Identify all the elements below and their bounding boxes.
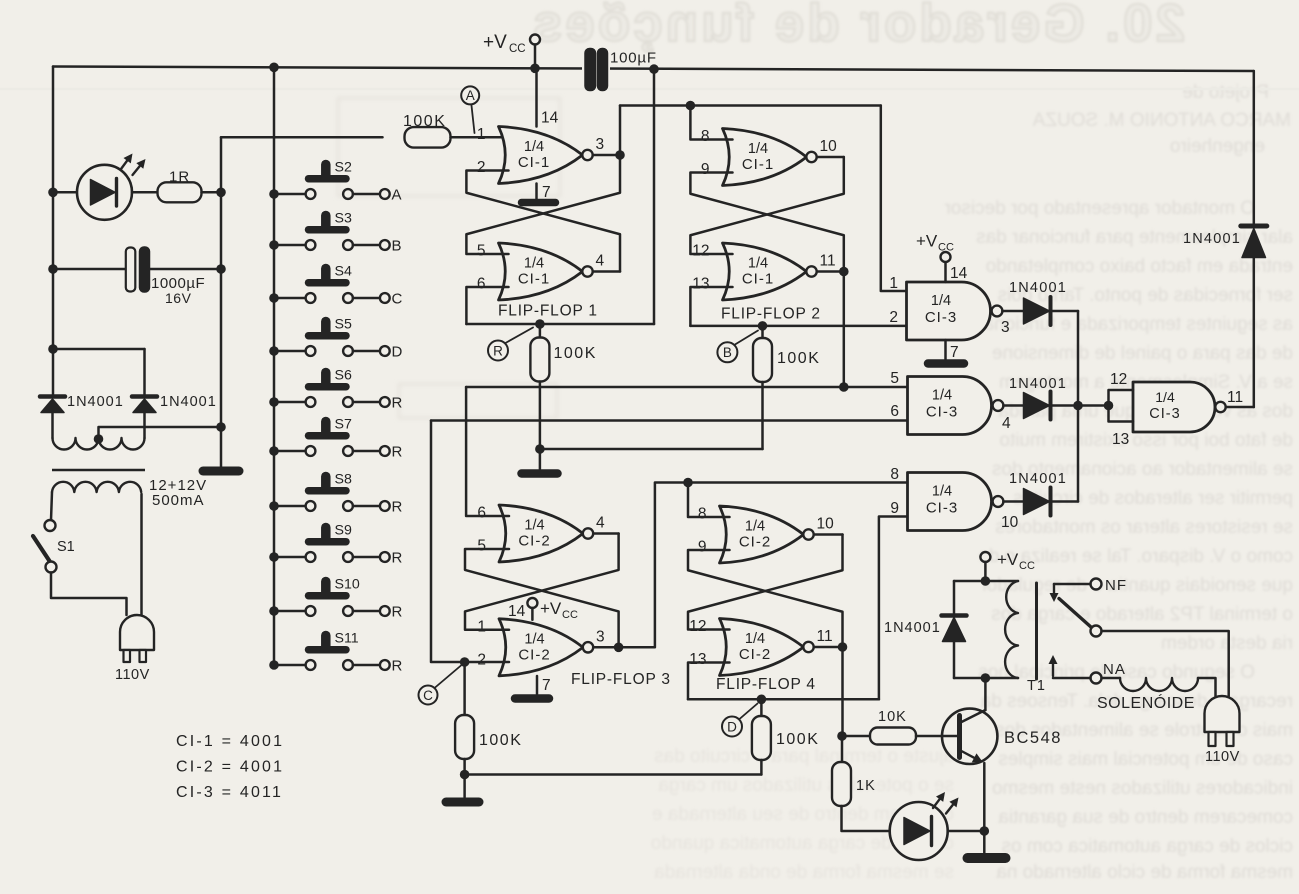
svg-text:100µF: 100µF (610, 50, 657, 67)
svg-text:engenheiro: engenheiro (1170, 136, 1265, 157)
NOR gate lower of FLIP-FLOP 4 (CI-2) (720, 619, 804, 676)
wire FF4 pin 13 to D net bottom wire (688, 663, 730, 700)
svg-text:CI-1: CI-1 (742, 271, 774, 288)
node R marker (506, 328, 534, 344)
svg-text:12: 12 (689, 618, 706, 635)
node C marker (435, 666, 462, 689)
svg-text:11: 11 (1227, 389, 1243, 406)
svg-text:S3: S3 (335, 211, 352, 227)
svg-text:CI-3: CI-3 (1149, 406, 1180, 422)
svg-text:S1: S1 (57, 539, 75, 555)
svg-text:4: 4 (596, 253, 605, 270)
capacitor C1 100uF (582, 55, 610, 83)
svg-text:500mA: 500mA (152, 492, 205, 509)
svg-text:C: C (423, 688, 433, 703)
svg-text:CC: CC (1019, 560, 1035, 572)
svg-text:1/4: 1/4 (745, 631, 765, 647)
svg-text:FLIP-FLOP 2: FLIP-FLOP 2 (721, 306, 821, 323)
svg-text:5: 5 (890, 370, 899, 387)
svg-text:9: 9 (701, 161, 710, 178)
svg-text:11: 11 (817, 628, 833, 645)
svg-text:CI-2: CI-2 (518, 533, 550, 550)
wire FF3 output 4 from bubble (593, 532, 618, 535)
svg-text:4: 4 (596, 515, 605, 532)
svg-text:10K: 10K (878, 709, 907, 725)
svg-text:MARCO ANTONIO M. SOUZA: MARCO ANTONIO M. SOUZA (1032, 110, 1291, 131)
svg-text:+V: +V (916, 232, 938, 251)
svg-text:CI-1 = 4001: CI-1 = 4001 (176, 733, 284, 750)
wire cross-coupling FLIP-FLOP 1 lower-output to upper-input (466, 171, 620, 272)
svg-text:7: 7 (950, 344, 959, 361)
svg-text:S5: S5 (335, 317, 352, 333)
wire R7 to base (916, 735, 957, 738)
wire FF1 pin 7 to ground (535, 184, 538, 199)
svg-text:13: 13 (689, 651, 706, 668)
relay lever (1059, 599, 1092, 628)
svg-text:+V: +V (483, 32, 507, 53)
junction R3 ground link (535, 444, 545, 454)
svg-text:mesma forma de ciclo alternado: mesma forma de ciclo alternado na (996, 862, 1293, 883)
junction 0V rail cap row (216, 264, 226, 274)
wire +Vcc / reset top rail (53, 67, 1254, 72)
switch S9 output R (269, 552, 279, 562)
junction C node (460, 657, 470, 667)
svg-text:1/4: 1/4 (745, 519, 765, 535)
contact NA terminal (1091, 673, 1102, 684)
pushbutton symbol S3 (309, 226, 347, 234)
relay K1 core (1035, 583, 1038, 679)
switch S1 (45, 520, 56, 531)
wire FF2 output 10 to cross (817, 156, 844, 159)
NOR gate lower of FLIP-FLOP 2 (CI-1) (723, 243, 807, 300)
svg-text:C: C (392, 291, 403, 308)
svg-text:R: R (392, 444, 403, 461)
wire FF2 pin 8 stub (690, 106, 732, 140)
svg-text:CC: CC (562, 609, 578, 621)
wire FF1 output 4 from bubble (593, 270, 620, 273)
transformer T0 core (52, 469, 145, 471)
wire emitter down (983, 763, 986, 831)
svg-text:CC: CC (938, 242, 954, 254)
NOR gate upper of FLIP-FLOP 4 (CI-2) (720, 506, 804, 563)
diode D1 1N4001 rectifier left (40, 394, 65, 399)
wire CI-3A output to diode D3 (1002, 310, 1023, 313)
svg-text:SOLENÓIDE: SOLENÓIDE (1097, 693, 1195, 712)
wire left rail to C2 (53, 268, 126, 271)
svg-text:10: 10 (1001, 514, 1019, 531)
svg-text:13: 13 (692, 276, 709, 293)
ground R5/R6 (446, 798, 479, 807)
junction top rail / switch rail (269, 63, 279, 73)
wire FF4 output 11 down to base node (841, 647, 844, 736)
junction left rail rectifier row (48, 344, 58, 354)
node D marker (740, 704, 758, 720)
wire CI-3D pin 12 input (1109, 390, 1134, 406)
junction left rail LED row (48, 188, 58, 198)
pushbutton symbol S6 (309, 383, 347, 391)
svg-text:se resistores alterar os monta: se resistores alterar os montadores (995, 517, 1293, 538)
solenoid L1 (1102, 677, 1121, 680)
wire R net bottom of FF1 (466, 323, 654, 326)
svg-text:8: 8 (701, 128, 710, 145)
svg-text:12: 12 (692, 243, 709, 260)
svg-text:1N4001: 1N4001 (1183, 231, 1241, 247)
pushbutton symbol S4 (309, 279, 347, 287)
junction top rail / reset vertical (649, 64, 659, 74)
svg-text:que senoidais quantia e de reg: que senoidais quantia e de regulador (980, 575, 1293, 596)
wire collector to relay (984, 678, 987, 710)
svg-text:5: 5 (477, 538, 486, 555)
wire rail down to CI-3A pin 1 (881, 106, 907, 292)
wire ground link R5-R6 (465, 773, 762, 776)
svg-text:R: R (392, 550, 403, 567)
junction base node (837, 731, 847, 741)
svg-text:16V: 16V (165, 290, 192, 306)
svg-text:1K: 1K (856, 778, 876, 794)
ground R3/R4 (522, 469, 558, 478)
wire common contact to plug P2 (1102, 631, 1229, 696)
wire net C rail to CI-3B pin 6 (431, 419, 908, 422)
wire CI-3D pin 13 input (1109, 406, 1134, 422)
svg-text:S7: S7 (335, 417, 352, 433)
svg-text:3: 3 (1001, 319, 1010, 336)
svg-text:ciclos de carga automatica com: ciclos de carga automatica com os (1002, 836, 1293, 857)
svg-text:CI-1: CI-1 (518, 154, 550, 171)
svg-text:1: 1 (477, 618, 486, 635)
wire FF3 output 3 up to rail (619, 483, 908, 648)
svg-text:ria desta ordem: ria desta ordem (1161, 633, 1293, 654)
capacitor C2 1000uF 16V (126, 248, 136, 292)
wire R3 to ground link (539, 382, 542, 450)
svg-text:9: 9 (890, 500, 899, 517)
svg-text:FLIP-FLOP 4: FLIP-FLOP 4 (716, 676, 816, 693)
wire switch column rail (273, 67, 276, 665)
svg-text:comecarem dentro de sua garant: comecarem dentro de sua garantia (998, 807, 1293, 828)
svg-text:1/4: 1/4 (524, 518, 544, 534)
junction emitter LED row (980, 826, 990, 836)
node A marker (472, 106, 475, 134)
svg-text:CI-2: CI-2 (739, 534, 771, 551)
wire left supply rail (52, 67, 55, 398)
arrow NA actuation (1052, 664, 1054, 676)
wire primary left to S1 (51, 492, 52, 520)
ground main 0V (203, 467, 239, 476)
switch S11 output R (269, 660, 279, 670)
svg-text:110V: 110V (1205, 749, 1240, 765)
resistor R3 100K (530, 338, 549, 382)
svg-text:9: 9 (698, 539, 707, 556)
svg-text:S2: S2 (335, 160, 352, 176)
wire relay top row (954, 580, 1018, 583)
svg-text:+V: +V (540, 599, 562, 618)
wire C node to resistor R5 (463, 662, 466, 715)
wire R5 ground stub (463, 775, 466, 798)
junction secondary center tap (94, 434, 104, 444)
svg-text:8: 8 (698, 506, 707, 523)
svg-text:Projeto de: Projeto de (1182, 82, 1269, 103)
svg-text:3: 3 (596, 136, 605, 153)
svg-text:3: 3 (596, 628, 605, 645)
svg-text:10: 10 (820, 138, 838, 155)
svg-text:13: 13 (1112, 431, 1129, 448)
wire NF stub with arrow (1054, 583, 1091, 586)
switch S5 output D (269, 346, 279, 356)
wire CI-3A pin 14 to +Vcc (944, 262, 947, 282)
wire R2 to FF1 pin 1 (451, 136, 509, 139)
svg-text:CI-2 = 4001: CI-2 = 4001 (176, 759, 284, 776)
svg-text:de das para o painel de dimens: de das para o painel de dimensione (992, 343, 1293, 364)
LED LED1 power indicator (77, 165, 132, 220)
wire left rail to LED1 (53, 191, 78, 194)
wire FF4 output 10 to cross (814, 533, 843, 536)
wire FF3 output 3 to bubble (593, 646, 618, 649)
svg-text:A: A (392, 187, 402, 204)
svg-text:1N4001: 1N4001 (1009, 280, 1067, 296)
wire R4 to ground link (761, 382, 764, 449)
wire base node to resistor R8 (841, 736, 844, 762)
pushbutton symbol S5 (309, 332, 347, 340)
svg-text:1R: 1R (169, 169, 190, 186)
svg-text:4: 4 (1002, 415, 1011, 432)
switch S6 output R (269, 397, 279, 407)
plug P1 110V (120, 615, 154, 650)
svg-text:D: D (727, 719, 737, 734)
junction rail / FF2 pin 8 (686, 101, 696, 111)
junction D node (757, 695, 767, 705)
contact common terminal (1091, 626, 1102, 637)
LED LED2 output indicator (890, 802, 948, 860)
wire R node to resistor R3 (539, 324, 542, 338)
svg-text:alar simplesmente para funcion: alar simplesmente para funcionar das (976, 227, 1293, 248)
node B marker (735, 331, 758, 345)
svg-text:1N4001: 1N4001 (884, 620, 941, 636)
wire primary right to plug P1 (140, 494, 143, 615)
pushbutton symbol S7 (309, 432, 347, 440)
junction relay coil top (981, 576, 991, 586)
switch S4 output C (269, 293, 279, 303)
junction R5 ground link (460, 770, 470, 780)
wire D2 anode to secondary (143, 413, 146, 439)
svg-text:1N4001: 1N4001 (1009, 376, 1067, 392)
wire diode D7 anode to CI-3 pin 11 output (1253, 258, 1256, 408)
wire B net bottom of FF2 to CI-3A pin 2 (690, 325, 906, 328)
wire FF1 output 3 to bubble (593, 154, 620, 157)
switch S3 output B (269, 240, 279, 250)
wire D net bottom of FF4 (688, 698, 879, 701)
resistor R1 1R (158, 182, 202, 202)
wire FF3 pin 7 to ground (536, 676, 539, 694)
transformer T0 primary winding (52, 482, 141, 492)
svg-text:se o potenciais utilizados um: se o potenciais utilizados um carga (658, 775, 954, 796)
junction R node (535, 319, 545, 329)
wire 0V rail vertical (220, 137, 223, 466)
wire S1 to plug P1 (51, 573, 127, 616)
junction FF1 output 3 (615, 150, 625, 160)
ground emitter (968, 853, 1006, 863)
svg-text:2: 2 (477, 159, 486, 176)
switch S10 output R (269, 606, 279, 616)
wire cathodes link row (53, 348, 145, 351)
NAND gate CI-3C pins 8 9 10 (908, 473, 992, 531)
svg-text:6: 6 (477, 505, 486, 522)
diode D3 1N4001 (1024, 298, 1050, 324)
svg-text:indicadores utilizados neste m: indicadores utilizados neste mesmo (992, 778, 1293, 799)
wire CI-3D output 11 to reset diode (1226, 406, 1254, 409)
diode D4 1N4001 (1024, 393, 1050, 419)
junction FF2 output 11 (839, 267, 849, 277)
svg-text:T1: T1 (1027, 678, 1046, 694)
wire FF1 pin 6 to R net bottom wire (466, 287, 508, 324)
svg-text:CI-1: CI-1 (742, 156, 774, 173)
svg-text:11: 11 (820, 253, 836, 270)
wire cross-coupling FLIP-FLOP 2 lower-output to upper-input (690, 173, 843, 272)
wire D4 cathode to CI-3D inputs (1053, 404, 1109, 407)
pushbutton symbol S2 (309, 175, 347, 183)
wire FF2 output 11 from bubble (817, 270, 844, 273)
junction FF4 output 11 (838, 642, 848, 652)
svg-text:caso de um potencial mais simp: caso de um potencial mais simples (998, 749, 1293, 770)
wire right rail down from top rail (1253, 71, 1256, 224)
terminal +Vcc top (530, 35, 540, 45)
svg-text:NF: NF (1105, 577, 1127, 594)
wire LED2 to emitter (948, 830, 985, 833)
svg-text:100K: 100K (403, 113, 446, 130)
svg-text:1/4: 1/4 (748, 141, 768, 157)
wire cross-coupling FLIP-FLOP 3 upper-output to lower-input (465, 534, 619, 630)
svg-text:1/4: 1/4 (932, 484, 952, 500)
wire rail FF1.Q to CI-3 pin 1 (620, 104, 881, 107)
junction rail / FF4 pin 8 (683, 478, 693, 488)
wire D node to resistor R6 (760, 699, 763, 716)
resistor R5 100K (455, 715, 474, 759)
svg-text:CI-2: CI-2 (739, 646, 771, 663)
wire D1 anode to secondary (51, 413, 54, 439)
svg-text:S10: S10 (335, 577, 360, 593)
NAND gate CI-3B pins 5 6 4 (908, 377, 992, 435)
svg-text:2: 2 (477, 651, 486, 668)
transformer T0 secondary winding 12+12V (53, 438, 145, 450)
svg-text:100K: 100K (479, 732, 522, 749)
switch S7 output R (269, 446, 279, 456)
svg-text:6: 6 (890, 403, 899, 420)
LED2 light arrows (933, 799, 940, 808)
ground FF3 pin 7 (515, 694, 549, 703)
svg-text:100K: 100K (776, 731, 819, 748)
NOR gate upper of FLIP-FLOP 1 (CI-1) (499, 127, 583, 184)
junction diode-OR (1073, 401, 1083, 411)
wire D3 cathode to OR junction (1053, 310, 1079, 313)
NOR gate upper of FLIP-FLOP 2 (CI-1) (723, 129, 807, 186)
plug P2 110V (1205, 696, 1240, 732)
svg-text:D: D (392, 344, 403, 361)
resistor R6 100K (752, 716, 771, 760)
svg-text:FLIP-FLOP 3: FLIP-FLOP 3 (571, 671, 671, 688)
svg-text:+V: +V (997, 550, 1019, 569)
wire R8 to LED2 (842, 806, 890, 831)
pushbutton symbol S10 (309, 592, 347, 600)
terminal +Vcc FF3 pin 14 (527, 598, 537, 608)
transistor Q1 BC548 (942, 709, 997, 764)
NAND gate CI-3A pins 1 2 3 (907, 282, 991, 340)
svg-text:FLIP-FLOP 1: FLIP-FLOP 1 (498, 303, 598, 320)
svg-text:1N4001: 1N4001 (160, 394, 217, 410)
svg-text:A: A (466, 88, 475, 103)
svg-text:CI-3: CI-3 (926, 500, 958, 517)
svg-text:10: 10 (817, 516, 835, 533)
wire reset vertical from top rail to R net (653, 69, 656, 324)
wire FF1 pin 14 to +Vcc rail (535, 68, 538, 126)
svg-text:1N4001: 1N4001 (67, 394, 124, 410)
wire diode-OR vertical (1077, 311, 1080, 502)
switch S8 output R (269, 501, 279, 511)
svg-text:1/4: 1/4 (1155, 389, 1175, 405)
diode D6 1N4001 flyback (953, 581, 956, 613)
ground CI-3A pin 7 (928, 359, 964, 368)
resistor R7 10K (870, 728, 916, 745)
svg-text:O montador apresentado por dec: O montador apresentado por decisor (944, 198, 1255, 219)
wire R6 to ground link (760, 760, 763, 775)
svg-text:S4: S4 (335, 264, 352, 280)
svg-text:1: 1 (889, 275, 898, 292)
wire base node to resistor R7 (842, 735, 870, 738)
svg-text:S8: S8 (335, 472, 352, 488)
contact NF terminal (1091, 579, 1102, 590)
svg-text:BC548: BC548 (1004, 729, 1062, 747)
svg-text:R: R (392, 604, 403, 621)
diode D5 1N4001 (1024, 489, 1050, 515)
resistor R2 100K input (405, 127, 451, 148)
pushbutton symbol S8 (309, 487, 347, 495)
wire center tap to 0V (99, 427, 222, 438)
wire ground link R3-R4 (540, 448, 763, 451)
svg-text:CI-3: CI-3 (925, 309, 957, 326)
svg-text:1/4: 1/4 (932, 388, 952, 404)
relay K1 coil (1005, 581, 1018, 678)
pushbutton symbol S9 (309, 538, 347, 546)
svg-text:12: 12 (1110, 371, 1127, 388)
wire rail left down to FF3 pin 6 (466, 387, 509, 516)
wire cross-coupling FLIP-FLOP 4 upper-output to lower-input (688, 535, 843, 630)
svg-text:R: R (493, 343, 503, 358)
pushbutton symbol S11 (309, 646, 347, 654)
svg-text:1/4: 1/4 (524, 631, 544, 647)
junction B node (758, 321, 768, 331)
resistor R4 100K (753, 338, 772, 382)
wire FF4 pin 8 stub (688, 483, 730, 518)
svg-text:NA: NA (1103, 661, 1126, 678)
svg-text:110V: 110V (115, 667, 150, 683)
wire R5 to ground link (463, 759, 466, 775)
wire FF4 output 11 from bubble (814, 646, 843, 649)
wire FF2 pin 13 to B net bottom wire (690, 287, 732, 326)
svg-text:S9: S9 (335, 523, 352, 539)
wire CI-3A pin 7 to ground (944, 340, 947, 359)
wire FF1 output 3 to rail A (619, 106, 622, 156)
NOR gate upper of FLIP-FLOP 3 (CI-2) (499, 505, 583, 562)
svg-text:14: 14 (541, 110, 559, 127)
wire FF2 output 11 down to B rail (843, 272, 846, 388)
NAND gate CI-3D pins 12 13 11 (1133, 382, 1215, 432)
junction CI-3D input node (1104, 401, 1114, 411)
svg-text:S11: S11 (335, 631, 359, 647)
svg-text:1/4: 1/4 (524, 139, 544, 155)
junction 0V rail center-tap row (216, 422, 226, 432)
wire C2 to 0V rail (149, 268, 221, 271)
svg-text:B: B (392, 238, 402, 255)
wire R3 ground stub (539, 449, 542, 469)
resistor R8 1K (832, 762, 851, 806)
wire cross-coupling FLIP-FLOP 1 upper-output to lower-input (466, 155, 620, 254)
